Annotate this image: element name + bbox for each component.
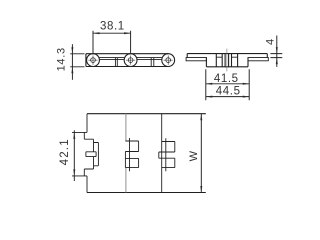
pin barrel circle 1 [87, 54, 100, 67]
dimension 42.1 arrows [73, 132, 75, 176]
dimension 4 arrows [276, 47, 278, 64]
svg-text:41.5: 41.5 [214, 73, 239, 85]
side view plate outline [86, 54, 168, 67]
side view plate underside lines [99, 58, 161, 60]
dimension 41.5 line [206, 83, 249, 85]
dimension 14.3 witness ticks [70, 54, 84, 67]
bottom view bottom edge [87, 192, 206, 194]
section centerline [226, 49, 228, 72]
dimension 42.1 line [73, 130, 75, 181]
pin barrel circle 2 [124, 54, 137, 67]
dimension 38.1 extension lines [93, 31, 131, 53]
pin barrel circle 3 [162, 54, 175, 67]
svg-text:4: 4 [265, 39, 277, 45]
section right wing plate [248, 58, 268, 61]
pin circle 2 [128, 58, 133, 63]
joint 1 left cut edge [72, 114, 98, 193]
joint 2 module boundary [125, 114, 127, 193]
pin 3 center cross [164, 56, 173, 65]
svg-text:14.3: 14.3 [56, 47, 68, 71]
section hinge pin box [225, 54, 229, 68]
section body verticals [206, 54, 248, 67]
dimension 14.3 arrows [71, 47, 73, 73]
section left wing plate [186, 58, 206, 61]
dimensions 41.5 44.5 extension lines [206, 69, 249, 100]
dimension 4 witness ticks [270, 54, 282, 58]
dimension 38.1 arrows [93, 32, 131, 34]
dimension 4 line [276, 36, 278, 67]
joint 2 hinge teeth [125, 138, 138, 171]
section plate underside segments [216, 56, 237, 58]
dimension 44.5 line [206, 96, 249, 98]
joint 3 module edge [161, 114, 163, 193]
pin 2 center cross [126, 56, 135, 65]
dimension 44.5 arrows [206, 96, 249, 98]
svg-text:44.5: 44.5 [216, 85, 241, 97]
pin 1 center cross [88, 56, 97, 65]
dimension 38.1 line [93, 32, 131, 34]
svg-text:38.1: 38.1 [100, 21, 125, 33]
svg-text:42.1: 42.1 [59, 138, 71, 165]
pin circle 3 [166, 58, 171, 63]
svg-text:W: W [188, 150, 200, 161]
dimension W line [200, 114, 202, 193]
joint 3 hinge teeth [159, 138, 175, 171]
pin circle 1 [91, 58, 96, 63]
dimension 14.3 line [71, 44, 73, 80]
dimension 41.5 arrows [206, 83, 249, 85]
section bottom line [206, 66, 248, 68]
dimension W arrows [200, 114, 202, 193]
section view top surface line [187, 54, 267, 58]
bottom view top edge [87, 113, 206, 115]
side view link dividers [115, 58, 153, 67]
